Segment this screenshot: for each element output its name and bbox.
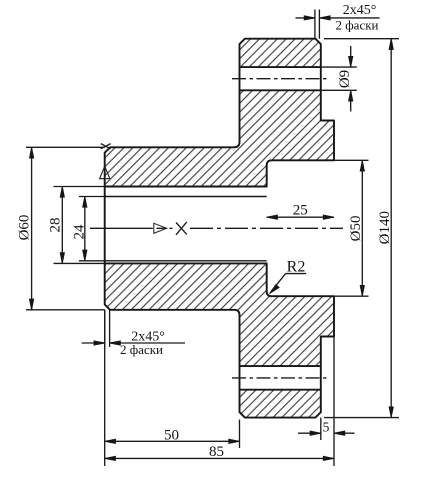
hatched section: flange top block above bolt hole (240, 39, 321, 67)
datum triangle on hub left face (100, 166, 110, 178)
main horizontal centerline (90, 227, 153, 229)
dim 24 extension lines (79, 196, 105, 198)
dim O60 extension lines (26, 146, 105, 148)
svg-text:Ø60: Ø60 (17, 215, 33, 241)
dim 5 extension lines (320, 418, 322, 440)
bottom bolt hole centerline (232, 377, 329, 379)
left chamfer note arrows and shelf (82, 342, 105, 344)
dim 28 extension lines (54, 186, 105, 188)
flange left face across top bolt hole (239, 67, 241, 90)
dim 85 line (105, 457, 334, 459)
dim 5 line with outside arrows (298, 432, 321, 434)
dim O50 extension lines (334, 159, 369, 161)
dim O140 extension lines (324, 38, 399, 40)
svg-text:R2: R2 (287, 259, 306, 276)
dim 28 line (61, 187, 63, 264)
svg-text:85: 85 (209, 444, 224, 460)
centerline triangle symbol (154, 223, 167, 233)
svg-text:28: 28 (47, 218, 63, 233)
flange right face across top bolt hole (320, 67, 322, 90)
left chamfer note extension lines (104, 310, 106, 347)
hatched section: lower mid (hub lower wall + flange web + boss) (105, 263, 334, 366)
svg-text:5: 5 (323, 420, 330, 435)
dim O9 extension lines (321, 66, 357, 68)
dim 50 line (105, 440, 240, 442)
flange left face across bottom bolt hole (239, 366, 241, 390)
dim O140 line (390, 39, 392, 418)
flange right face across bottom bolt hole (320, 366, 322, 390)
bore 24 upper line (105, 196, 267, 198)
R2 leader (286, 273, 307, 275)
svg-text:Ø140: Ø140 (377, 211, 393, 244)
dim 50 extension lines (104, 310, 106, 466)
svg-text:24: 24 (72, 224, 88, 240)
top chamfer note arrows and shelf (296, 17, 315, 19)
svg-text:25: 25 (293, 203, 308, 219)
top bolt hole centerline (232, 78, 329, 80)
bore 24 lower line (105, 260, 267, 262)
svg-text:2 фаски: 2 фаски (120, 342, 163, 357)
svg-text:Ø9: Ø9 (337, 70, 353, 88)
hatched section: upper mid (flange web + boss + hub upper wall) (105, 90, 334, 186)
svg-text:2x45°: 2x45° (343, 3, 377, 18)
dim 25 line (267, 216, 334, 218)
svg-text:2 фаски: 2 фаски (336, 18, 379, 33)
dim O9 line with outside arrows (350, 46, 352, 67)
dim O50 line (361, 160, 363, 296)
dim O60 line (31, 147, 33, 309)
top chamfer note extension lines (314, 10, 316, 39)
dim 24 line (84, 197, 86, 261)
svg-text:Ø50: Ø50 (348, 215, 364, 241)
corner X mark at hub top-left (101, 144, 111, 149)
svg-text:50: 50 (164, 427, 179, 443)
hub left face edge across hole opening (104, 187, 106, 264)
hatched section: flange bottom block below bolt hole (240, 390, 321, 418)
centerline X symbol (176, 222, 187, 235)
